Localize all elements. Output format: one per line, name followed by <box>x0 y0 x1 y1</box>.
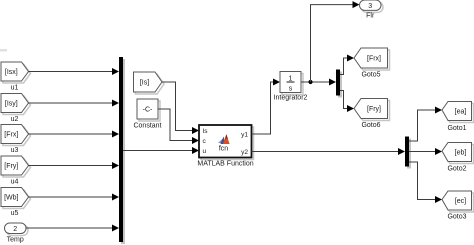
from block Isx (u1) <box>1 62 31 92</box>
junction node <box>308 80 312 84</box>
svg-text:[Wb]: [Wb] <box>4 195 18 202</box>
svg-text:fcn: fcn <box>219 146 228 153</box>
svg-text:Goto6: Goto6 <box>361 122 380 129</box>
svg-text:MATLAB Function: MATLAB Function <box>197 161 253 168</box>
svg-text:Goto2: Goto2 <box>447 166 466 173</box>
wire Integrator2 out to demux2 <box>301 79 336 86</box>
from block Is <box>134 72 165 94</box>
svg-text:u1: u1 <box>11 85 19 92</box>
svg-text:Constant: Constant <box>133 123 161 130</box>
wire u3 to mux <box>29 131 120 138</box>
svg-text:[Is]: [Is] <box>140 80 149 87</box>
svg-text:[ec]: [ec] <box>455 198 466 205</box>
svg-text:u4: u4 <box>11 179 19 186</box>
wire demux2 to Goto5 <box>340 55 354 75</box>
svg-text:Integrator2: Integrator2 <box>274 95 308 102</box>
wire Temp to mux <box>26 225 119 232</box>
svg-text:[ea]: [ea] <box>455 109 467 116</box>
svg-text:u2: u2 <box>11 116 19 123</box>
svg-text:2: 2 <box>13 226 17 233</box>
MATLAB logo icon <box>218 134 230 144</box>
wire u2 to mux <box>29 100 120 107</box>
wire junction to outport Flr <box>311 1 360 82</box>
svg-text:1: 1 <box>289 76 293 83</box>
wire demux2 to Goto6 <box>340 91 354 113</box>
svg-text:y2: y2 <box>241 149 248 156</box>
svg-text:Temp: Temp <box>7 237 24 244</box>
svg-text:s: s <box>289 86 293 93</box>
demux bar 2 (2 outputs) <box>336 70 342 98</box>
svg-text:Goto3: Goto3 <box>447 214 466 221</box>
constant block -C- <box>133 99 161 130</box>
from block Frx left (u3) <box>1 125 31 155</box>
svg-text:[Fry]: [Fry] <box>367 106 381 113</box>
goto block Goto1 [ea] <box>442 102 474 133</box>
from block Wb (u5) <box>1 188 31 218</box>
svg-text:3: 3 <box>368 3 372 10</box>
svg-text:Flr: Flr <box>366 13 375 20</box>
from block Fry left (u4) <box>1 156 31 186</box>
svg-text:-C-: -C- <box>143 107 153 114</box>
svg-text:[eb]: [eb] <box>455 150 467 157</box>
wire u5 to mux <box>29 194 120 201</box>
integrator block Integrator2 <box>274 72 308 102</box>
MATLAB Function block U1 <box>197 125 253 168</box>
wire fcn y1 to Integrator2 <box>252 79 281 135</box>
goto block Goto2 [eb] <box>442 143 474 173</box>
goto block Goto5 [Frx] <box>354 48 390 79</box>
goto block Goto6 [Fry] <box>354 99 390 130</box>
svg-text:[Frx]: [Frx] <box>4 132 18 139</box>
demux bar 3 (3 outputs) <box>405 137 411 169</box>
mux bar (6 inputs) <box>119 57 125 244</box>
outport 3 Flr <box>360 0 384 20</box>
svg-text:[Isx]: [Isx] <box>5 69 18 76</box>
goto block Goto3 [ec] <box>442 191 474 221</box>
wire Constant to fcn input 2 <box>158 109 199 144</box>
wire u1 to mux <box>29 68 120 75</box>
inport 2 Temp <box>5 223 29 244</box>
svg-text:Goto5: Goto5 <box>361 72 380 79</box>
svg-text:[Isy]: [Isy] <box>5 101 18 108</box>
wire mux output to fcn input 3 <box>123 147 199 154</box>
svg-text:u5: u5 <box>11 210 19 217</box>
wire demux3 to Goto1 <box>409 107 442 142</box>
from block Isy (u2) <box>1 94 31 124</box>
svg-text:[Frx]: [Frx] <box>367 56 381 63</box>
wire Is to fcn input 1 <box>162 82 199 134</box>
wire u4 to mux <box>29 162 120 169</box>
wire demux3 to Goto3 <box>409 162 442 203</box>
svg-text:[Fry]: [Fry] <box>4 163 18 170</box>
wire demux3 to Goto2 <box>409 148 442 155</box>
svg-text:u3: u3 <box>11 147 19 154</box>
wire fcn y2 to demux3 <box>252 148 406 155</box>
svg-text:Is: Is <box>203 128 209 135</box>
svg-text:Goto1: Goto1 <box>447 125 466 132</box>
faint cropped label remnant top-left <box>0 49 7 52</box>
svg-text:u: u <box>203 148 207 155</box>
svg-text:y1: y1 <box>241 132 248 139</box>
